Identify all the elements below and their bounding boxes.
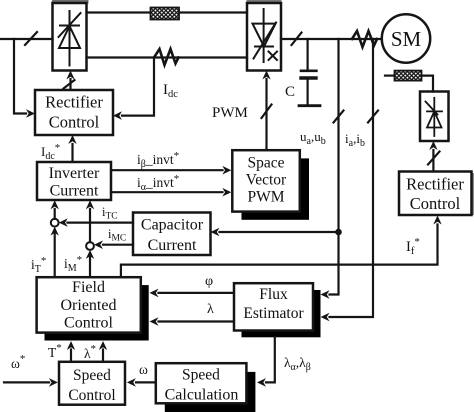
rectifier bridge box (line side converter) [53,3,87,71]
arrowhead into Rectifier Control left [26,109,35,118]
summing node 2 [86,242,94,250]
svg-text:Estimator: Estimator [243,305,304,322]
svg-text:ω*: ω* [11,353,25,371]
wire: Idc* from Inverter Current to Rectifier Control [71,144,73,162]
svg-text:Speed: Speed [73,367,111,384]
wire: i_beta_invt* to Space Vector PWM [111,169,223,171]
wire: tap down to rectifier control [14,39,26,114]
svg-text:Field: Field [72,279,105,296]
wire: omega* input arrow [4,381,49,383]
Speed Calculation box [156,363,247,403]
svg-text:Current: Current [148,237,197,254]
wire: node2 up to Inverter Current [89,209,91,242]
svg-text:ω: ω [139,362,148,377]
scan artifact above rectifier bridge [52,0,89,4]
junction dot on ua,ub line [335,229,342,236]
wire: iM* from FOC up into node 2 [89,256,91,277]
wire: lambda_ab from Flux Estimator to Speed Calculation [266,337,275,382]
Field Oriented Control shadow [45,285,149,340]
wire: iTC from Capacitor Current to summing node 1 [68,222,134,224]
wire: i_alpha_invt* to Space Vector PWM [111,191,223,193]
arrowhead into Capacitor Current right [211,228,220,237]
svg-text:λ*: λ* [84,343,96,361]
arrowhead into Flux Estimator input 2 [321,313,330,322]
svg-text:Current: Current [50,183,99,200]
svg-text:iMC: iMC [108,227,126,244]
wire: phi from Flux Estimator to FOC [159,292,235,294]
wire: ia,ib sense line down [330,39,374,317]
Rectifier Control box (right) [399,172,472,216]
svg-text:PWM: PWM [247,189,284,206]
svg-text:T*: T* [48,342,62,360]
Field Oriented Control box [37,277,141,332]
wire: lambda from Flux Estimator to FOC [159,320,235,322]
wire: field resistor to exciter [422,76,434,92]
svg-text:If*: If* [406,236,420,257]
slash on ua,ub line [334,111,344,123]
stator winding zigzag [352,31,377,47]
wire: inverter output to SM [281,38,382,40]
svg-text:Speed: Speed [182,367,220,384]
SM machine circle [382,14,430,62]
svg-text:iβ_invt*: iβ_invt* [137,150,179,170]
svg-text:PWM: PWM [212,105,248,121]
capacitor C end bar [299,104,320,107]
inverter bridge box (machine side converter) [247,3,281,71]
svg-text:φ: φ [205,274,213,289]
thyristor symbol in rectifier bridge [59,11,81,66]
svg-text:Rectifier: Rectifier [406,175,464,194]
wire: T* from Speed Control to FOC [70,350,72,362]
svg-text:iα_invt*: iα_invt* [137,173,179,193]
wire: AC input line left [0,38,53,40]
thyristor symbol in exciter [426,98,443,136]
hatched field resistor [395,71,422,81]
wire: DC link top rail [87,11,248,13]
slash on exciter gate lead [428,152,440,165]
wire: omega from Speed Calculation to Speed Control [136,381,156,383]
slash on AC input wire [25,32,37,45]
scan artifact above inverter bridge [247,0,282,4]
wire: iT* from FOC up into node 1 [54,233,56,278]
arrowhead into Rectifier Control right [113,111,122,120]
capacitor C tap [307,39,309,69]
svg-text:ia,ib: ia,ib [345,131,365,149]
Flux Estimator shadow [242,290,321,337]
Inverter Current box [37,162,111,200]
wire: DC link bottom rail [87,56,248,58]
slash on gate lead [64,80,75,89]
svg-text:Flux: Flux [259,286,288,303]
arrowhead into Flux Estimator input 1 [321,290,330,299]
slash on inverter output [292,33,302,46]
svg-text:C: C [285,84,295,100]
svg-text:Control: Control [410,194,461,213]
hatched resistor on DC link [151,8,180,20]
svg-text:Inverter: Inverter [49,165,100,182]
thyristor symbol in inverter bridge [253,9,278,62]
slash on PWM gate lead [262,105,272,119]
Speed Calculation shadow [165,372,256,412]
Speed Control box [59,362,125,405]
wire: ua,ub sense line down [330,39,339,295]
svg-text:iT*: iT* [31,255,46,275]
svg-text:λα,λβ: λα,λβ [284,355,311,373]
Space Vector PWM box [232,150,299,211]
Capacitor Current box [133,213,211,256]
Rectifier Control box (left) [35,90,113,135]
svg-text:Calculation: Calculation [165,387,239,404]
svg-text:iTC: iTC [102,205,118,222]
svg-text:Capacitor: Capacitor [141,217,204,234]
capacitor C lower lead [307,80,309,105]
slash on ia,ib line [368,111,378,123]
wire: If* from FOC top to right Rectifier Control [121,225,438,278]
svg-text:Space: Space [247,155,284,172]
gate lead into exciter (from right Rectifier Control) [432,150,434,172]
svg-text:Control: Control [49,113,100,132]
capacitor C top plate [301,70,316,73]
svg-text:Oriented: Oriented [61,297,117,314]
gate lead into rectifier bridge (from Rectifier Control) [69,79,71,91]
svg-text:Idc*: Idc* [41,142,60,162]
wire: lambda* from Speed Control to FOC [102,350,104,362]
capacitor C bottom plate [301,76,316,79]
gate lead into inverter bridge (PWM) [265,79,267,150]
Flux Estimator box [234,283,313,330]
Space Vector PWM shadow [242,158,310,219]
svg-text:λ: λ [207,302,214,317]
svg-text:Control: Control [68,387,115,404]
scan artifact right of right Rectifier Control [472,173,474,215]
field winding lead [385,74,395,76]
svg-text:Idc: Idc [163,82,178,100]
exciter rectifier box [420,92,449,142]
svg-text:SM: SM [391,27,422,51]
wire: Idc sense tap [122,58,154,116]
svg-text:Control: Control [64,315,113,332]
svg-text:Vector: Vector [246,172,287,189]
svg-text:Rectifier: Rectifier [45,93,103,112]
summing node 1 [51,219,59,227]
wire: iMC from Capacitor Current to summing node 2 [103,244,133,246]
inductor zigzag on bottom rail [154,49,179,65]
wire: node1 up to Inverter Current [54,209,56,219]
svg-text:iM*: iM* [64,254,82,274]
wire: branch to Capacitor Current [220,231,339,233]
svg-text:ua,ub: ua,ub [300,129,326,147]
